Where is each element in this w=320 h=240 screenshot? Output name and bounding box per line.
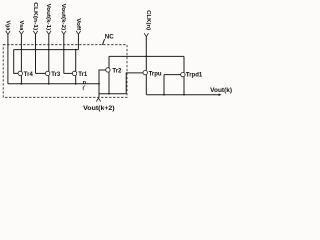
wire Trpd1 drain corner [183, 56, 185, 72]
arrowhead output [219, 93, 222, 96]
wire Vout(k-1) vertical to Tr3 drain [48, 34, 50, 71]
dashed box NC boundary [3, 45, 127, 98]
input CLK(n) label [145, 10, 151, 30]
wire Tr4 source [20, 76, 22, 84]
svg-text:CLK(n-1): CLK(n-1) [32, 2, 38, 30]
arrow Vout(k+2) up [96, 98, 100, 102]
svg-text:CLK(n): CLK(n) [145, 10, 151, 30]
wire W1 corner to Tr4 gate [14, 50, 19, 74]
wire Trpd1 gate drop [163, 75, 165, 95]
transistor Trpu [143, 70, 147, 74]
wire Vout(k-2) vertical [63, 34, 65, 73]
wire Tr3 gate stub [36, 72, 46, 74]
svg-text:Tr1: Tr1 [78, 72, 88, 78]
transistor Tr2 [106, 68, 110, 72]
wire output Vout(k) [146, 94, 219, 96]
wire node B riser to Trpu gate [126, 73, 143, 94]
node NC label [105, 33, 114, 40]
svg-text:Vsa: Vsa [18, 21, 24, 31]
svg-text:Vout(k): Vout(k) [210, 87, 232, 94]
junction dots on W1 [48, 49, 76, 51]
input Vout(k-1) label [45, 4, 51, 31]
wire Vsa vertical to Tr4 drain [20, 34, 22, 71]
arrow Vout(k-1) [47, 31, 51, 34]
junction dots on rail A [21, 83, 100, 85]
svg-text:Tr3: Tr3 [51, 72, 61, 78]
wire CLK row horizontal [109, 55, 184, 57]
label Vout(k) [210, 87, 232, 94]
transistor Trpd1 [181, 72, 185, 76]
leader squiggle for node n [83, 85, 85, 90]
transistor Tr4 [18, 71, 22, 75]
wire Vga vertical [7, 34, 9, 84]
svg-text:Vout(k-2): Vout(k-2) [60, 4, 66, 31]
junction dot rail B [108, 93, 110, 95]
node n label [83, 80, 87, 86]
wire W1 horizontal [14, 49, 79, 51]
input Vga label [4, 21, 10, 31]
wire rail B (node B) [99, 93, 126, 95]
wire rail A (Voff rail) [8, 83, 99, 85]
svg-text:Vout(k-1): Vout(k-1) [45, 4, 51, 31]
arrow CLK(n) [144, 33, 148, 36]
arrow CLK(n-1) [33, 31, 37, 34]
svg-text:Vout(k+2): Vout(k+2) [83, 105, 114, 112]
wire Tr1 drain drop [75, 50, 77, 72]
svg-text:Tr2: Tr2 [112, 68, 122, 74]
input Vsa label [18, 21, 24, 31]
svg-text:Voff: Voff [75, 18, 81, 30]
input CLK(n-1) label [32, 2, 38, 30]
arrow Vout(k-2) [62, 31, 66, 34]
svg-text:Tr4: Tr4 [24, 72, 34, 78]
wire Voff vertical [77, 34, 79, 49]
svg-text:Trpd1: Trpd1 [186, 73, 203, 79]
transistor Tr1 [72, 71, 76, 75]
wire Trpd1 gate [164, 74, 181, 76]
wire CLK(n-1) vertical [35, 34, 37, 73]
svg-text:n: n [83, 80, 87, 86]
svg-text:Vga: Vga [4, 21, 10, 31]
wire Tr2 source [108, 72, 110, 94]
input Voff label [75, 18, 81, 30]
svg-text:NC: NC [105, 33, 114, 40]
leader line for NC [102, 39, 104, 45]
wire Trpu source [145, 75, 147, 95]
junction dots on output [163, 94, 185, 96]
svg-text:Trpu: Trpu [149, 71, 162, 77]
arrow Voff [76, 31, 80, 34]
wire CLK(n) vertical [145, 37, 147, 71]
transistor Tr3 [46, 71, 50, 75]
wire Vout(k+2) riser / Tr2 gate feed [99, 70, 106, 97]
wire Tr1 gate stub [64, 72, 73, 74]
wire Trpd1 source [183, 77, 185, 95]
junction dot CLK row [145, 56, 147, 58]
input Vout(k-2) label [60, 4, 66, 31]
arrow Vsa [19, 31, 23, 34]
label Vout(k+2) [83, 105, 114, 112]
wire Tr2 drain corner [108, 56, 110, 67]
arrow Vga [6, 31, 10, 34]
wire Tr1 source [75, 76, 77, 84]
wire Tr3 source [48, 76, 50, 84]
